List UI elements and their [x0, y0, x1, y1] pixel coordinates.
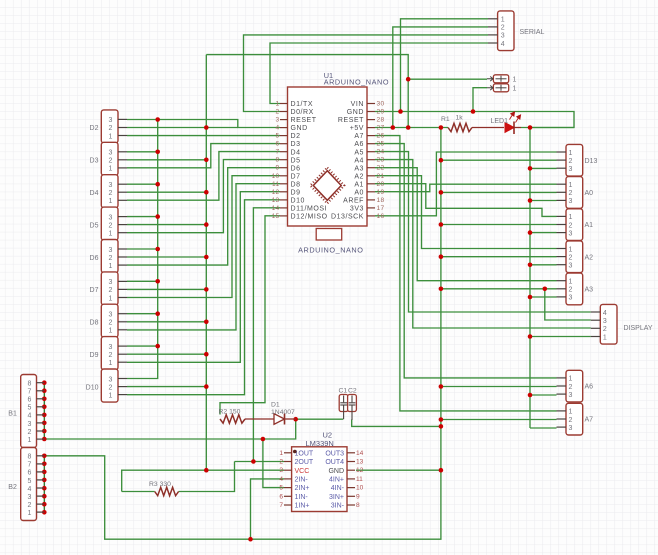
connector A1	[566, 209, 583, 241]
resistor R1 leads	[472, 127, 504, 129]
svg-text:A3: A3	[585, 287, 594, 294]
svg-text:29: 29	[377, 109, 385, 116]
svg-text:DISPLAY: DISPLAY	[624, 325, 653, 332]
connector D10	[101, 369, 118, 402]
wire D7 pin3 to GND bus	[127, 280, 158, 282]
svg-text:1: 1	[501, 17, 505, 24]
wire D2 pin1 to Arduino	[127, 135, 280, 137]
svg-text:19: 19	[377, 189, 385, 196]
connector B1	[21, 375, 37, 448]
wire GND rail to D13 pin3	[530, 167, 557, 169]
wire A1 to A1 pin1	[375, 184, 557, 217]
svg-text:2: 2	[279, 459, 283, 466]
svg-text:2: 2	[108, 255, 112, 262]
svg-text:VCC: VCC	[295, 468, 310, 475]
svg-text:12: 12	[272, 189, 280, 196]
svg-text:4: 4	[603, 310, 607, 317]
U2 pin 7 1IN+	[284, 504, 292, 506]
svg-text:D13/SCK: D13/SCK	[331, 214, 364, 221]
svg-text:9: 9	[356, 493, 360, 500]
svg-text:D5: D5	[90, 222, 99, 229]
wire GND rail to A0 pin3	[530, 200, 557, 202]
connector A6	[566, 370, 583, 402]
svg-text:1: 1	[603, 334, 607, 341]
wire D8 pin3 to GND bus	[127, 313, 158, 315]
wire D4 pin2 to +5V bus	[127, 191, 206, 193]
connector D8	[101, 304, 118, 337]
wire A3 to A3 pin1	[375, 168, 557, 281]
svg-text:20: 20	[377, 181, 385, 188]
U1 pin 7 D4	[280, 151, 288, 153]
U1 pin 20 A1	[367, 183, 375, 185]
svg-text:10: 10	[272, 173, 280, 180]
svg-text:3: 3	[108, 214, 112, 221]
svg-text:A1: A1	[354, 181, 364, 188]
wire D2 pin2 to +5V left bus	[127, 127, 238, 129]
svg-text:21: 21	[377, 173, 385, 180]
svg-text:3: 3	[108, 150, 112, 157]
svg-text:A2: A2	[585, 254, 594, 261]
wire GND rail to A6 pin3	[530, 394, 557, 396]
wire D6 pin1 to Arduino	[127, 168, 280, 265]
svg-text:1OUT: 1OUT	[295, 450, 314, 457]
U2 pin 9 3IN+	[347, 495, 355, 497]
U1 pin 26 A7	[367, 135, 375, 137]
svg-text:2IN-: 2IN-	[295, 477, 309, 484]
svg-text:D6: D6	[90, 255, 99, 262]
wire D11/MOSI to U2 2OUT	[253, 208, 280, 462]
svg-text:LM339N: LM339N	[306, 439, 334, 448]
wire D7 pin1 to Arduino	[127, 176, 280, 298]
svg-text:4: 4	[28, 486, 32, 493]
svg-text:6: 6	[276, 141, 280, 148]
wire D4 pin1 to Arduino	[127, 152, 280, 201]
svg-text:18: 18	[377, 197, 385, 204]
svg-text:1IN-: 1IN-	[295, 494, 309, 501]
svg-text:ARDUINO_NANO: ARDUINO_NANO	[298, 246, 363, 255]
svg-text:1: 1	[108, 166, 112, 173]
wire D10 pin2 to +5V bus	[127, 386, 206, 388]
diode D1 1N4007	[245, 418, 274, 420]
U1 pin 8 D5	[280, 159, 288, 161]
wire D7 pin2 to +5V bus	[127, 288, 206, 290]
svg-text:3IN+: 3IN+	[329, 494, 344, 501]
svg-text:3: 3	[108, 182, 112, 189]
svg-text:2: 2	[501, 25, 505, 32]
LED LED1	[505, 123, 514, 133]
connector D2	[101, 110, 118, 143]
svg-text:14: 14	[356, 450, 364, 457]
svg-text:15: 15	[272, 213, 280, 220]
svg-text:D0/RX: D0/RX	[291, 109, 314, 116]
svg-text:2: 2	[108, 222, 112, 229]
svg-text:1IN+: 1IN+	[295, 503, 310, 510]
svg-text:7: 7	[28, 462, 32, 469]
svg-text:1: 1	[569, 279, 573, 286]
svg-text:1: 1	[28, 437, 32, 444]
wire +5V top distribution	[206, 55, 408, 128]
wire D5 pin1 to Arduino	[127, 160, 280, 233]
svg-text:3: 3	[569, 263, 573, 270]
wire +5V bus to A6 pin2	[441, 386, 557, 388]
svg-text:D7: D7	[291, 173, 301, 180]
U1 pin 16 D13/SCK	[367, 215, 375, 217]
svg-text:D10: D10	[291, 198, 306, 205]
wire +5V bus to D13 pin2	[441, 159, 557, 161]
wire +5V pin27 to R1	[375, 127, 448, 129]
svg-text:25: 25	[377, 141, 385, 148]
svg-text:D12/MISO: D12/MISO	[291, 214, 328, 221]
svg-text:A5: A5	[354, 149, 364, 156]
connector D5	[101, 207, 118, 240]
wire GND rail to A7 pin3	[530, 427, 557, 429]
svg-text:1: 1	[513, 85, 517, 92]
svg-text:1: 1	[569, 182, 573, 189]
svg-text:8: 8	[276, 157, 280, 164]
svg-text:2OUT: 2OUT	[295, 459, 314, 466]
U1 pin 24 A5	[367, 151, 375, 153]
svg-text:D2: D2	[291, 133, 301, 140]
svg-text:4: 4	[276, 125, 280, 132]
U2 pin 1 1OUT	[284, 452, 292, 454]
svg-text:R3 330: R3 330	[149, 481, 171, 488]
wire to 1-pin connector JP2	[473, 88, 487, 112]
wire B1 pin1 net to D1 cathode	[44, 419, 295, 439]
svg-text:1: 1	[28, 510, 32, 517]
svg-text:11: 11	[356, 476, 363, 483]
op-amp U2 LM339N box	[292, 447, 347, 512]
svg-text:1: 1	[108, 231, 112, 238]
U2 pin 12 GND	[347, 469, 355, 471]
wire D9 pin3 to GND bus	[127, 345, 158, 347]
1-pin connector JP1	[493, 75, 508, 83]
svg-text:7: 7	[28, 389, 32, 396]
svg-text:D9: D9	[291, 189, 301, 196]
svg-text:3: 3	[603, 318, 607, 325]
svg-text:D10: D10	[86, 384, 99, 391]
svg-text:2IN+: 2IN+	[295, 485, 310, 492]
svg-text:23: 23	[377, 157, 385, 164]
svg-text:B2: B2	[8, 484, 17, 491]
svg-text:2: 2	[569, 222, 573, 229]
wire LED cathode to GND loop	[521, 127, 574, 129]
svg-text:3: 3	[501, 33, 505, 40]
svg-text:3: 3	[108, 279, 112, 286]
svg-text:B1: B1	[8, 411, 17, 418]
U1 pin 1 D1/TX	[280, 103, 288, 105]
svg-text:1: 1	[108, 328, 112, 335]
connector A3	[566, 273, 583, 305]
wire +5V left bus	[205, 55, 207, 471]
svg-text:10: 10	[356, 485, 364, 492]
connector D7	[101, 272, 118, 305]
U1 pin 11 D8	[280, 183, 288, 185]
svg-text:1N4007: 1N4007	[271, 409, 295, 416]
svg-text:LED1: LED1	[491, 118, 509, 125]
svg-text:2: 2	[108, 190, 112, 197]
connector A2	[566, 241, 583, 273]
U2 pin 4 2IN-	[284, 478, 292, 480]
wire GND rail to A1 pin3	[530, 232, 557, 234]
U2 pin 11 4IN+	[347, 478, 355, 480]
svg-text:28: 28	[377, 117, 385, 124]
U1 pin 4 GND	[280, 127, 288, 129]
svg-text:GND: GND	[328, 468, 344, 475]
svg-text:3: 3	[276, 117, 280, 124]
wire D3 pin1 to Arduino	[127, 144, 280, 168]
wire D6 pin2 to +5V bus	[127, 256, 206, 258]
svg-text:A3: A3	[354, 165, 364, 172]
svg-text:2: 2	[108, 384, 112, 391]
svg-text:1: 1	[108, 360, 112, 367]
svg-text:OUT3: OUT3	[325, 450, 344, 457]
wire U2 pin5 2IN+ to B1 net	[263, 439, 284, 488]
svg-text:1: 1	[569, 246, 573, 253]
svg-text:ARDUINO_NANO: ARDUINO_NANO	[324, 77, 389, 86]
U1 pin 9 D6	[280, 167, 288, 169]
wire GND rail to DISPLAY pin1	[530, 336, 591, 338]
U1 pin 14 D11/MOSI	[280, 207, 288, 209]
svg-text:3: 3	[569, 392, 573, 399]
svg-text:3: 3	[28, 494, 32, 501]
svg-text:A7: A7	[354, 133, 364, 140]
svg-text:D4: D4	[291, 149, 301, 156]
wire A7 to A7 pin1	[375, 136, 557, 411]
svg-text:3V3: 3V3	[350, 206, 364, 213]
svg-text:1: 1	[513, 76, 517, 83]
U1 pin 5 D2	[280, 135, 288, 137]
wire +5V branch to DISPLAY pin3	[545, 289, 591, 320]
svg-text:27: 27	[377, 125, 385, 132]
wire D9 pin1 to Arduino	[127, 192, 280, 363]
svg-text:D1: D1	[271, 402, 280, 409]
svg-text:2: 2	[569, 417, 573, 424]
wire A6 to A6 pin1	[375, 144, 557, 378]
wire D3 pin2 to +5V bus	[127, 159, 206, 161]
svg-text:GND: GND	[347, 109, 364, 116]
wire +5V bus to A2 pin2	[441, 256, 557, 258]
svg-text:OUT4: OUT4	[325, 459, 344, 466]
connector DISPLAY	[600, 304, 617, 344]
svg-text:24: 24	[377, 149, 385, 156]
svg-text:2: 2	[276, 109, 280, 116]
svg-text:AREF: AREF	[343, 198, 364, 205]
svg-text:3: 3	[569, 198, 573, 205]
svg-text:4IN-: 4IN-	[331, 485, 345, 492]
svg-text:A2: A2	[354, 173, 364, 180]
svg-text:2: 2	[108, 287, 112, 294]
svg-text:13: 13	[356, 459, 364, 466]
junction dots	[398, 109, 403, 114]
wire B2 pins tie	[43, 456, 45, 513]
U2 internal dot	[293, 450, 297, 454]
svg-text:7: 7	[276, 149, 280, 156]
U1 crystal rect below box	[316, 229, 342, 241]
svg-text:D8: D8	[291, 181, 301, 188]
U1 pin 27 +5V	[367, 127, 375, 129]
connector D6	[101, 240, 118, 273]
U1 pin 19 A0	[367, 191, 375, 193]
svg-text:A7: A7	[585, 417, 594, 424]
svg-text:5: 5	[279, 485, 283, 492]
wire +5V bus to A3 pin2	[441, 288, 557, 290]
svg-text:A4: A4	[354, 157, 364, 164]
svg-text:D2: D2	[90, 125, 99, 132]
svg-text:SERIAL: SERIAL	[520, 29, 545, 36]
svg-text:1: 1	[108, 263, 112, 270]
U2 pin 2 2OUT	[284, 461, 292, 463]
svg-text:VIN: VIN	[351, 101, 364, 108]
connector A7	[566, 403, 583, 435]
wire U2 pin12 GND to +5V bus	[356, 469, 441, 471]
wire SERIAL pin3 to D0/RX	[244, 35, 489, 112]
resistor R1	[448, 123, 472, 131]
svg-text:5: 5	[276, 133, 280, 140]
svg-text:A6: A6	[354, 141, 364, 148]
svg-text:6: 6	[28, 397, 32, 404]
svg-text:3: 3	[108, 376, 112, 383]
connector B2	[21, 448, 37, 521]
U2 pin 13 OUT4	[347, 461, 355, 463]
wire C2 to +5V bus	[352, 420, 441, 427]
U1 pin 2 D0/RX	[280, 111, 288, 113]
svg-text:A6: A6	[585, 384, 594, 391]
wire A2 to A2 pin1	[375, 176, 557, 249]
svg-text:1: 1	[276, 101, 280, 108]
svg-text:8: 8	[28, 454, 32, 461]
capacitor C2	[348, 395, 357, 412]
wire D1 cathode to C1	[296, 418, 344, 420]
svg-text:R2 150: R2 150	[219, 409, 241, 416]
U1 pin 25 A6	[367, 143, 375, 145]
svg-text:D6: D6	[291, 165, 301, 172]
svg-text:D7: D7	[90, 287, 99, 294]
svg-text:D3: D3	[90, 158, 99, 165]
U1 pin 28 RESET	[367, 119, 375, 121]
svg-text:4: 4	[28, 413, 32, 420]
svg-text:1: 1	[279, 450, 283, 457]
svg-text:3: 3	[108, 312, 112, 319]
U2 pin 6 1IN-	[284, 495, 292, 497]
svg-text:1: 1	[108, 198, 112, 205]
svg-text:22: 22	[377, 165, 385, 172]
wire D3 pin3 to GND bus	[127, 151, 158, 153]
resistor R3	[155, 487, 179, 495]
svg-text:2: 2	[28, 429, 32, 436]
svg-text:C1: C1	[339, 388, 348, 395]
svg-text:1: 1	[569, 376, 573, 383]
connector D4	[101, 175, 118, 208]
wire R3 to 2OUT	[179, 462, 235, 492]
svg-text:26: 26	[377, 133, 385, 140]
wire B1 pins tie	[43, 383, 45, 439]
svg-text:2: 2	[569, 384, 573, 391]
U1 pin 22 A3	[367, 167, 375, 169]
U1 pin 12 D9	[280, 191, 288, 193]
svg-text:2: 2	[108, 320, 112, 327]
wire SERIAL pin1 to GND net	[401, 19, 489, 112]
svg-text:D13: D13	[585, 158, 598, 165]
U1 pin 6 D3	[280, 143, 288, 145]
connector D9	[101, 337, 118, 370]
svg-text:17: 17	[377, 205, 385, 212]
capacitor C1	[339, 395, 348, 412]
wire U2 pin4 2IN- to bottom rail	[251, 479, 285, 539]
U1 pin 29 GND	[367, 111, 375, 113]
svg-text:3: 3	[279, 467, 283, 474]
wire +5V right bus and bottom rail to B2 pin8	[44, 128, 441, 540]
svg-text:5: 5	[28, 478, 32, 485]
wire +5V bus to A1 pin2	[441, 224, 557, 226]
U1 pin 18 AREF	[367, 199, 375, 201]
svg-text:C2: C2	[348, 388, 357, 395]
svg-text:3IN-: 3IN-	[331, 503, 345, 510]
svg-text:2: 2	[108, 125, 112, 132]
wire D5 pin2 to +5V bus	[127, 224, 206, 226]
wire D8 pin2 to +5V bus	[127, 321, 206, 323]
1-pin connector JP2	[493, 84, 508, 92]
U1 pin 23 A4	[367, 159, 375, 161]
wire GND rail to A2 pin3	[530, 264, 557, 266]
wire SERIAL pin4 to D1/TX	[270, 43, 488, 104]
svg-text:4IN+: 4IN+	[329, 477, 344, 484]
svg-text:A0: A0	[354, 189, 364, 196]
svg-text:2: 2	[569, 158, 573, 165]
svg-text:8: 8	[28, 381, 32, 388]
wire to U2 pin2 2OUT	[235, 461, 285, 463]
svg-text:GND: GND	[291, 125, 308, 132]
svg-text:2: 2	[108, 158, 112, 165]
svg-text:D3: D3	[291, 141, 301, 148]
svg-text:6: 6	[28, 470, 32, 477]
U2 pin 14 OUT3	[347, 452, 355, 454]
svg-text:3: 3	[569, 425, 573, 432]
U2 pin 10 4IN-	[347, 487, 355, 489]
svg-text:8: 8	[356, 502, 360, 509]
wire D9 pin2 to +5V bus	[127, 353, 206, 355]
U1 pin 3 RESET	[280, 119, 288, 121]
resistor R2	[220, 415, 245, 423]
connector A0	[566, 177, 583, 209]
svg-text:D9: D9	[90, 352, 99, 359]
svg-text:D8: D8	[90, 320, 99, 327]
svg-text:3: 3	[108, 117, 112, 124]
svg-text:A0: A0	[585, 190, 594, 197]
U1 diamond logo	[313, 171, 341, 201]
wire D4 pin3 to GND bus	[127, 183, 158, 185]
connector SERIAL	[498, 11, 514, 51]
svg-text:D4: D4	[90, 190, 99, 197]
svg-text:+5V: +5V	[350, 125, 364, 132]
U2 pin 3 VCC	[284, 469, 292, 471]
svg-text:1k: 1k	[456, 115, 464, 122]
svg-text:2: 2	[603, 326, 607, 333]
svg-text:30: 30	[377, 101, 385, 108]
svg-text:2: 2	[569, 190, 573, 197]
U1 pin 13 D10	[280, 199, 288, 201]
wire D5 pin3 to GND bus	[127, 216, 158, 218]
svg-text:3: 3	[569, 295, 573, 302]
U1 pin 10 D7	[280, 175, 288, 177]
wire D6 pin3 to GND bus	[127, 248, 158, 250]
wire D13/SCK to D13 pin1	[375, 152, 557, 216]
svg-text:D11/MOSI: D11/MOSI	[291, 206, 328, 213]
wire +5V bus to A0 pin2	[441, 191, 557, 193]
svg-text:1: 1	[569, 150, 573, 157]
wire D2 pin3 GND bus to Arduino GND pin4	[127, 120, 280, 128]
svg-text:2: 2	[108, 352, 112, 359]
U1 pin 15 D12/MISO	[280, 215, 288, 217]
